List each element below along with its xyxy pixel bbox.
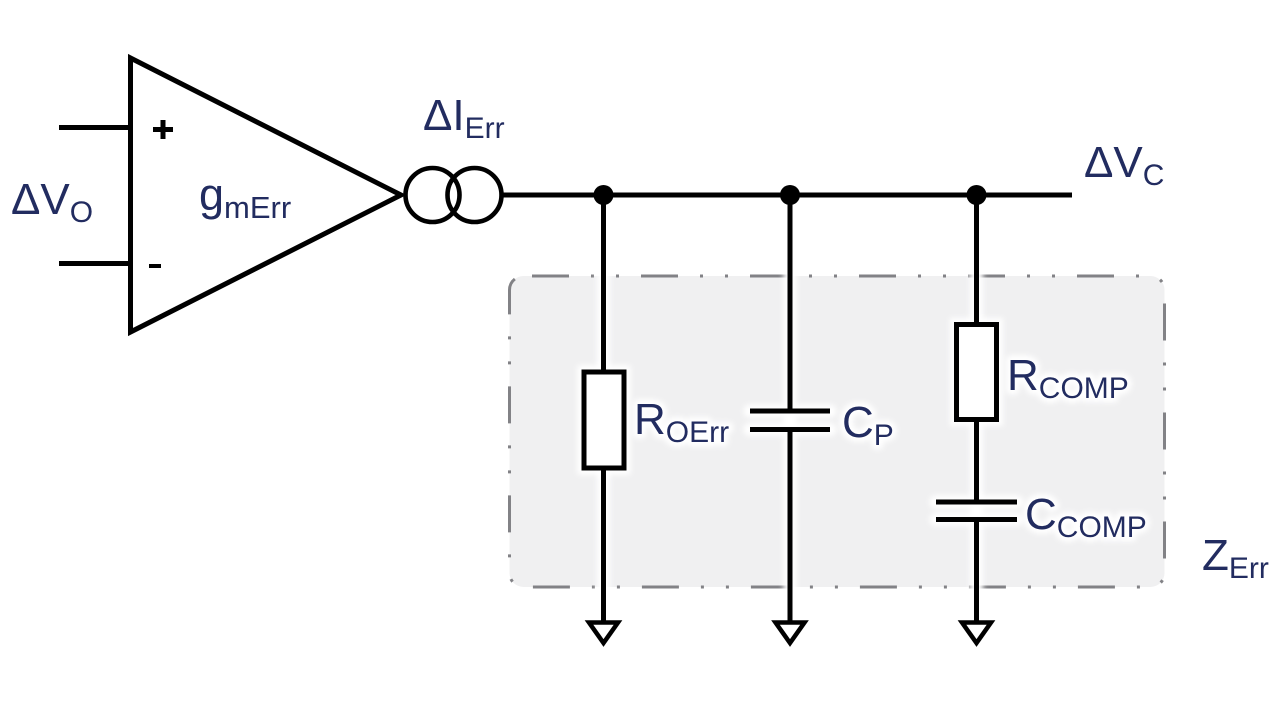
svg-text:ΔVO: ΔVO [11,175,93,229]
svg-text:ΔIErr: ΔIErr [423,91,505,145]
svg-text:ΔVC: ΔVC [1084,138,1164,192]
svg-text:ZErr: ZErr [1202,531,1269,585]
